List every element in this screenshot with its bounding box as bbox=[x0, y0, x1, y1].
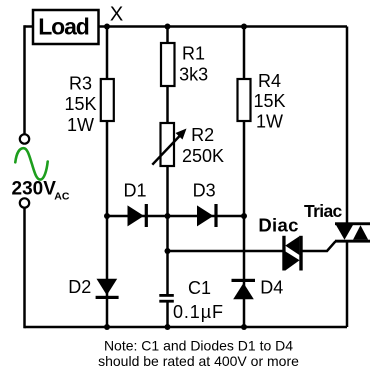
junction dot D1 left bbox=[104, 213, 110, 219]
resistor R3 body bbox=[101, 79, 114, 121]
junction dot top-left bbox=[104, 24, 110, 30]
svg-text:D1: D1 bbox=[124, 180, 147, 200]
svg-text:X: X bbox=[110, 4, 123, 26]
junction dot D1-D3 middle bbox=[165, 213, 171, 219]
svg-text:D2: D2 bbox=[68, 277, 91, 297]
svg-text:15K: 15K bbox=[253, 91, 285, 111]
svg-text:D3: D3 bbox=[193, 180, 216, 200]
load box LOAD bbox=[33, 10, 99, 44]
svg-text:R4: R4 bbox=[258, 71, 281, 91]
resistor R4 body bbox=[238, 79, 251, 121]
wire triac vertical lower bbox=[346, 242, 349, 328]
svg-text:Diac: Diac bbox=[258, 215, 298, 236]
svg-text:D4: D4 bbox=[260, 278, 283, 298]
diode D2 bbox=[97, 279, 118, 296]
svg-text:1W: 1W bbox=[67, 115, 94, 135]
wire diac horizontal bbox=[168, 250, 283, 253]
svg-text:3k3: 3k3 bbox=[179, 65, 208, 85]
junction dot top-right bbox=[241, 24, 247, 30]
wire D1-D3 horizontal bbox=[107, 215, 244, 218]
wire left vertical lower bbox=[23, 208, 26, 328]
svg-text:250K: 250K bbox=[182, 146, 224, 166]
wire branch middle below C1 bbox=[166, 303, 169, 328]
diac symbol bbox=[282, 236, 285, 271]
wire triac vertical upper bbox=[346, 27, 349, 224]
wire branch left-middle vertical bbox=[106, 27, 109, 328]
junction dot bottom-left bbox=[104, 324, 110, 330]
svg-text:230V: 230V bbox=[12, 179, 57, 200]
wire branch right vertical bbox=[243, 27, 246, 328]
diode D3 bbox=[197, 205, 213, 226]
diode D4 bbox=[232, 279, 256, 282]
junction dot D3 right bbox=[241, 213, 247, 219]
junction dot diac wire bbox=[165, 248, 171, 254]
diode D1 bbox=[128, 205, 144, 226]
wire top horizontal bbox=[99, 25, 348, 28]
wire diac to triac gate bbox=[303, 241, 336, 251]
svg-text:C1: C1 bbox=[188, 278, 211, 298]
potentiometer R2 arrow bbox=[152, 135, 181, 165]
terminal circle top bbox=[20, 134, 29, 143]
capacitor C1 plates bbox=[159, 294, 174, 297]
AC source sine wave bbox=[15, 148, 47, 179]
svg-text:AC: AC bbox=[54, 191, 70, 203]
wire branch middle vertical bbox=[166, 27, 169, 295]
triac symbol bbox=[335, 222, 370, 225]
junction dot bottom-right bbox=[241, 324, 247, 330]
potentiometer R2 body bbox=[161, 123, 175, 166]
wire left vertical upper bbox=[23, 25, 26, 134]
svg-text:Load: Load bbox=[38, 14, 89, 40]
svg-text:should be rated at 400V or mor: should be rated at 400V or more bbox=[98, 353, 299, 369]
svg-text:Triac: Triac bbox=[304, 201, 343, 221]
svg-text:15K: 15K bbox=[64, 94, 96, 114]
svg-text:1W: 1W bbox=[256, 111, 283, 131]
junction dot bottom-middle bbox=[165, 324, 171, 330]
wire left stub to Load bbox=[25, 25, 34, 28]
svg-text:R3: R3 bbox=[69, 74, 92, 94]
svg-text:R2: R2 bbox=[191, 125, 214, 145]
wire bottom horizontal bbox=[25, 326, 348, 329]
junction dot top-middle bbox=[165, 24, 171, 30]
svg-text:0.1µF: 0.1µF bbox=[173, 302, 224, 322]
resistor R1 body bbox=[161, 43, 175, 86]
terminal circle bottom bbox=[20, 198, 29, 207]
svg-text:Note: C1 and Diodes D1 to D4: Note: C1 and Diodes D1 to D4 bbox=[104, 338, 293, 354]
svg-text:R1: R1 bbox=[182, 44, 205, 64]
